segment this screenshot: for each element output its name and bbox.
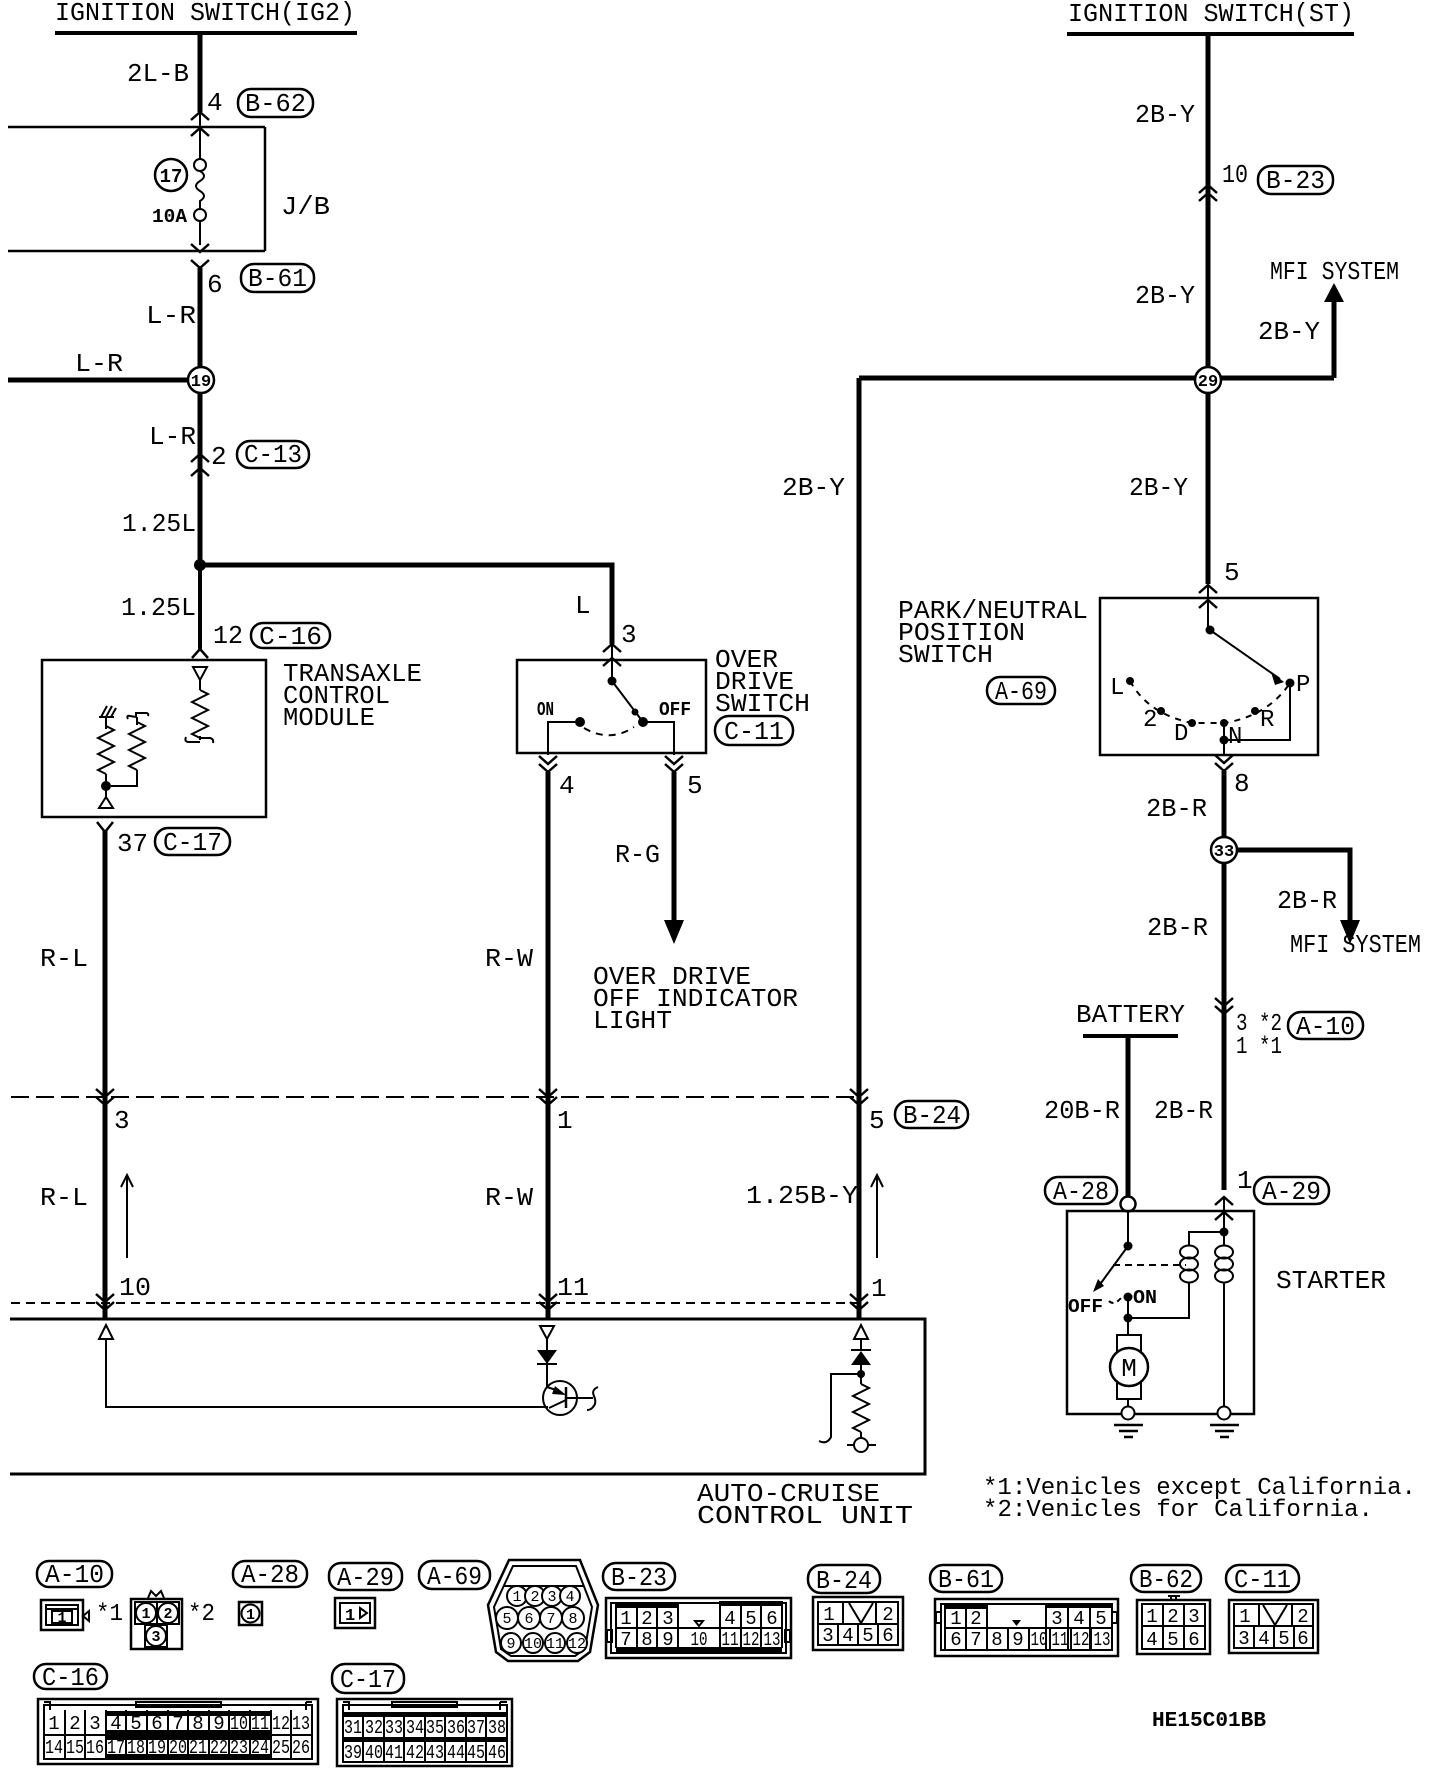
TCM internal triangle terminal (99, 790, 113, 808)
svg-text:D: D (1174, 721, 1188, 748)
svg-text:13: 13 (764, 1629, 781, 1651)
connector C-11 pin 5 (665, 756, 703, 801)
svg-text:2: 2 (1143, 707, 1157, 734)
svg-text:2: 2 (211, 442, 227, 472)
svg-text:A-28: A-28 (1053, 1177, 1109, 1207)
svg-text:10: 10 (1222, 160, 1248, 190)
resistor in auto-cruise (847, 1384, 876, 1452)
starter motor M (1110, 1335, 1148, 1406)
svg-text:5: 5 (1224, 558, 1240, 588)
svg-text:B-24: B-24 (903, 1101, 961, 1131)
svg-text:44: 44 (447, 1742, 465, 1764)
svg-text:A-10: A-10 (1296, 1012, 1355, 1042)
svg-text:A-69: A-69 (995, 677, 1047, 707)
svg-text:C-17: C-17 (163, 828, 222, 858)
svg-text:5: 5 (745, 1608, 756, 1630)
svg-text:33: 33 (385, 1717, 403, 1739)
junction 19 (188, 367, 214, 393)
junction 29 (1195, 367, 1221, 393)
connector A-10 detail (37, 1560, 123, 1630)
svg-text:3: 3 (1238, 1628, 1249, 1650)
svg-text:A-10: A-10 (45, 1560, 104, 1590)
svg-text:34: 34 (406, 1717, 424, 1739)
svg-text:4: 4 (1258, 1628, 1269, 1650)
transistor in auto-cruise unit (543, 1381, 598, 1415)
svg-text:SWITCH: SWITCH (715, 689, 810, 719)
svg-text:ON: ON (1133, 1287, 1157, 1309)
svg-text:SWITCH: SWITCH (898, 640, 993, 670)
svg-text:B-62: B-62 (245, 89, 306, 119)
svg-text:1: 1 (1146, 1606, 1157, 1628)
connector A-69 pin 8 (1215, 755, 1250, 799)
node IGNITION SWITCH(ST) (1067, 0, 1354, 34)
svg-text:2L-B: 2L-B (127, 59, 189, 89)
svg-text:12: 12 (568, 1636, 586, 1653)
svg-text:2: 2 (163, 1606, 172, 1623)
svg-text:20: 20 (169, 1737, 187, 1759)
svg-text:3: 3 (621, 620, 637, 650)
svg-text:*2:Venicles for California.: *2:Venicles for California. (983, 1497, 1373, 1524)
svg-text:C-16: C-16 (42, 1663, 99, 1693)
note vehicles (983, 1475, 1416, 1524)
connector C-16 pin 12 (192, 621, 330, 658)
svg-text:5: 5 (862, 1625, 873, 1647)
svg-text:2B-Y: 2B-Y (1129, 473, 1188, 503)
svg-text:6: 6 (1188, 1629, 1199, 1651)
svg-text:23: 23 (230, 1737, 248, 1759)
svg-text:1: 1 (557, 1106, 573, 1136)
svg-text:2: 2 (530, 1589, 539, 1606)
svg-text:2B-R: 2B-R (1154, 1096, 1213, 1126)
wire 2B-Y branch down from junction 29 (782, 378, 859, 1319)
svg-text:5: 5 (1167, 1629, 1178, 1651)
svg-text:35: 35 (426, 1717, 444, 1739)
svg-text:R-W: R-W (485, 1183, 533, 1213)
connector B-24 pin 3 (96, 1089, 130, 1136)
svg-text:10: 10 (1031, 1629, 1048, 1651)
svg-text:3: 3 (1188, 1606, 1199, 1628)
svg-text:45: 45 (467, 1742, 485, 1764)
svg-text:38: 38 (488, 1717, 506, 1739)
svg-text:6: 6 (207, 270, 223, 300)
ground left in starter (1114, 1407, 1143, 1438)
connector A-10 pins 3/1 (1215, 998, 1363, 1061)
svg-text:4: 4 (207, 88, 223, 118)
svg-text:1: 1 (871, 1274, 887, 1304)
node IGNITION SWITCH(IG2) (55, 0, 357, 33)
svg-text:J/B: J/B (281, 192, 330, 222)
wire direction arrow left (121, 1175, 133, 1258)
auto-cruise control unit connector pins 10 11 1 dashed line (11, 1273, 887, 1310)
svg-text:R-L: R-L (40, 944, 88, 974)
svg-text:A-28: A-28 (241, 1560, 299, 1590)
node branch dot in auto-cruise (857, 1370, 865, 1378)
node junction dot to overdrive switch branch (194, 559, 206, 571)
connector C-16 detail (34, 1663, 318, 1764)
svg-text:1: 1 (1239, 1606, 1250, 1628)
svg-text:*2: *2 (188, 1601, 215, 1628)
park/neutral contacts and dashed arc (1110, 672, 1310, 751)
park/neutral position switch box (898, 596, 1318, 755)
svg-text:C-11: C-11 (724, 717, 784, 747)
svg-text:37: 37 (117, 829, 148, 859)
svg-text:1.25L: 1.25L (121, 593, 196, 623)
svg-text:R-W: R-W (485, 944, 533, 974)
svg-text:IGNITION SWITCH(IG2): IGNITION SWITCH(IG2) (55, 0, 355, 28)
svg-text:21: 21 (189, 1737, 207, 1759)
svg-text:9: 9 (662, 1629, 673, 1651)
svg-text:7: 7 (546, 1611, 555, 1628)
wire R-L from TCM pin 37 (40, 830, 105, 1319)
svg-text:2B-R: 2B-R (1146, 794, 1207, 824)
svg-text:10A: 10A (152, 206, 188, 228)
svg-text:1.25L: 1.25L (122, 509, 196, 539)
connector C-11 pin 4 (539, 756, 575, 801)
svg-text:2: 2 (1297, 1606, 1308, 1628)
svg-text:33: 33 (1214, 843, 1234, 862)
svg-text:3: 3 (151, 1629, 160, 1646)
svg-text:L-R: L-R (146, 301, 196, 331)
svg-text:OFF: OFF (1068, 1296, 1103, 1318)
svg-text:B-62: B-62 (1139, 1565, 1193, 1595)
svg-text:3: 3 (547, 1589, 556, 1606)
svg-text:4: 4 (724, 1608, 735, 1630)
svg-text:5: 5 (502, 1611, 511, 1628)
svg-text:C-11: C-11 (1234, 1565, 1291, 1595)
connector C-11 detail (1226, 1565, 1318, 1653)
connector B-61 pin 6 (191, 244, 314, 300)
svg-text:7: 7 (970, 1629, 981, 1651)
svg-text:18: 18 (127, 1737, 145, 1759)
starter box (1067, 1211, 1386, 1414)
svg-text:11: 11 (1052, 1629, 1069, 1651)
svg-text:STARTER: STARTER (1276, 1266, 1386, 1296)
svg-text:4: 4 (842, 1625, 853, 1647)
auto-cruise control unit box (10, 1319, 925, 1531)
transaxle control module box (42, 659, 422, 817)
svg-text:13: 13 (1094, 1629, 1111, 1651)
svg-text:M: M (1121, 1354, 1137, 1384)
svg-text:2: 2 (970, 1608, 981, 1630)
connector B-24 detail (808, 1565, 903, 1650)
svg-text:6: 6 (524, 1611, 533, 1628)
wire L-R down from J/B (146, 268, 200, 650)
svg-text:1: 1 (57, 1610, 66, 1627)
svg-text:16: 16 (86, 1737, 104, 1759)
svg-text:L-R: L-R (149, 422, 196, 452)
connector B-62 detail (1131, 1565, 1210, 1654)
wire 2B-R below junction 33 (1147, 863, 1224, 1190)
svg-text:R: R (1260, 707, 1274, 734)
fuse 17 10A in J/B (152, 159, 206, 245)
svg-text:9: 9 (506, 1636, 515, 1653)
svg-text:1.25B-Y: 1.25B-Y (746, 1181, 858, 1211)
connector C-13 pin 2 (191, 440, 309, 476)
svg-text:N: N (1228, 724, 1242, 751)
svg-text:4: 4 (110, 1713, 121, 1735)
wire R-W from overdrive switch pin 4 (485, 772, 548, 1319)
connector A-29 detail (329, 1563, 402, 1628)
svg-text:MODULE: MODULE (283, 703, 375, 733)
svg-text:6: 6 (1297, 1628, 1308, 1650)
svg-text:40: 40 (365, 1742, 383, 1764)
svg-text:MFI SYSTEM: MFI SYSTEM (1290, 930, 1421, 960)
wire R-G from overdrive switch pin 5 to indicator light (615, 772, 684, 944)
svg-text:OFF: OFF (659, 699, 691, 721)
svg-text:36: 36 (447, 1717, 465, 1739)
wire branch with hook in auto-cruise (819, 1374, 861, 1442)
svg-text:13: 13 (292, 1713, 310, 1735)
junction 33 (1211, 837, 1237, 863)
node OVER DRIVE OFF INDICATOR LIGHT (593, 962, 798, 1036)
svg-text:7: 7 (620, 1629, 631, 1651)
svg-text:2: 2 (641, 1608, 652, 1630)
svg-text:19: 19 (148, 1737, 166, 1759)
svg-text:C-16: C-16 (259, 622, 322, 652)
svg-text:2B-R: 2B-R (1277, 886, 1337, 916)
svg-text:9: 9 (1012, 1629, 1023, 1651)
svg-text:8: 8 (991, 1629, 1002, 1651)
svg-text:37: 37 (467, 1717, 485, 1739)
svg-text:19: 19 (191, 373, 211, 392)
svg-text:6: 6 (766, 1608, 777, 1630)
wire direction arrow right (871, 1175, 883, 1258)
svg-text:17: 17 (160, 166, 183, 188)
svg-text:2B-Y: 2B-Y (1135, 281, 1195, 311)
svg-text:2: 2 (69, 1713, 80, 1735)
over drive switch box (517, 645, 810, 753)
svg-text:11: 11 (251, 1713, 269, 1735)
connector A-28 detail (233, 1560, 307, 1625)
overdrive switch contacts (537, 677, 691, 756)
svg-text:1 *1: 1 *1 (1236, 1034, 1282, 1061)
resistor in TCM middle with hook top (111, 713, 148, 786)
connector A-10 california detail (131, 1591, 215, 1649)
svg-text:A-69: A-69 (427, 1562, 482, 1592)
svg-text:4: 4 (559, 771, 575, 801)
svg-text:1: 1 (620, 1608, 631, 1630)
svg-text:2B-Y: 2B-Y (782, 473, 845, 503)
svg-text:11: 11 (557, 1273, 589, 1303)
svg-text:HE15C01BB: HE15C01BB (1152, 1710, 1266, 1733)
svg-text:B-24: B-24 (816, 1566, 872, 1596)
svg-text:29: 29 (1198, 373, 1218, 392)
wire 2B-Y from ignition switch ST (1135, 36, 1208, 368)
svg-text:26: 26 (292, 1737, 310, 1759)
wire 2B-R to junction 33 (1146, 771, 1224, 838)
connector C-17 detail (332, 1664, 512, 1766)
svg-text:C-13: C-13 (244, 440, 302, 470)
svg-text:P: P (1296, 672, 1310, 699)
connector B-24 pin 1 (539, 1089, 573, 1136)
wire branch to overdrive switch (200, 565, 612, 644)
connector B-24 pin 5 (850, 1089, 885, 1136)
svg-text:15: 15 (66, 1737, 84, 1759)
svg-text:LIGHT: LIGHT (593, 1006, 672, 1036)
starter switch (1068, 1211, 1186, 1335)
resistor in TCM left with hatch top (98, 706, 116, 783)
auto-cruise input terminal pin 10 (99, 1325, 548, 1407)
svg-text:4: 4 (565, 1589, 574, 1606)
svg-text:A-29: A-29 (337, 1563, 394, 1593)
wire 2L-B from ignition switch IG2 (127, 35, 200, 112)
wire P contact to N pin (1220, 683, 1291, 755)
connector B-61 detail (930, 1565, 1118, 1656)
svg-text:5: 5 (130, 1713, 141, 1735)
svg-text:6: 6 (882, 1625, 893, 1647)
svg-text:B-23: B-23 (611, 1563, 667, 1593)
connector B-23 detail (603, 1563, 791, 1658)
svg-text:2B-Y: 2B-Y (1135, 100, 1195, 130)
svg-text:10: 10 (230, 1713, 248, 1735)
connector B-23 pin 10 (1199, 160, 1333, 201)
node TCM internal junction dot (101, 781, 111, 791)
svg-text:5: 5 (687, 771, 703, 801)
node BATTERY (1044, 1000, 1185, 1197)
svg-text:2: 2 (882, 1604, 893, 1626)
svg-text:8: 8 (1234, 769, 1250, 799)
svg-text:10: 10 (524, 1636, 542, 1653)
svg-text:5: 5 (869, 1106, 885, 1136)
svg-text:BATTERY: BATTERY (1076, 1000, 1185, 1030)
connector B-24 dashed line (11, 1097, 968, 1131)
svg-text:ON: ON (537, 699, 554, 721)
node MFI SYSTEM top (1258, 257, 1399, 378)
svg-text:3: 3 (114, 1106, 130, 1136)
svg-text:5: 5 (1278, 1628, 1289, 1650)
diode at pin 1 of auto-cruise (851, 1325, 871, 1384)
svg-text:24: 24 (251, 1737, 269, 1759)
svg-text:2B-Y: 2B-Y (1258, 317, 1320, 347)
svg-text:41: 41 (385, 1742, 403, 1764)
svg-text:3: 3 (662, 1608, 673, 1630)
svg-text:7: 7 (172, 1713, 183, 1735)
wire L-R from left (8, 349, 190, 380)
svg-text:31: 31 (344, 1717, 362, 1739)
svg-text:12: 12 (213, 621, 243, 651)
svg-text:2: 2 (1167, 1606, 1178, 1628)
starter solenoid coils (1128, 1211, 1233, 1406)
connector A-69 detail (419, 1560, 598, 1661)
svg-text:1: 1 (512, 1589, 521, 1606)
svg-text:4: 4 (1073, 1608, 1084, 1630)
svg-text:*1: *1 (96, 1601, 123, 1628)
resistor in TCM right (pull-up) (185, 667, 213, 743)
svg-text:14: 14 (45, 1737, 63, 1759)
svg-text:1: 1 (141, 1606, 150, 1623)
svg-text:8: 8 (192, 1713, 203, 1735)
svg-text:42: 42 (406, 1742, 424, 1764)
svg-text:1: 1 (950, 1608, 961, 1630)
svg-text:10: 10 (691, 1629, 708, 1651)
connector C-11 pin 3 (603, 620, 637, 681)
svg-text:6: 6 (950, 1629, 961, 1651)
svg-text:L: L (575, 591, 591, 621)
diode at pin 11 (537, 1326, 557, 1387)
connector A-69 pin 5 (1199, 558, 1240, 630)
svg-text:46: 46 (488, 1742, 506, 1764)
connector A-29 pin 1 (1215, 1166, 1329, 1232)
svg-text:2B-R: 2B-R (1147, 913, 1208, 943)
svg-text:C-17: C-17 (340, 1665, 396, 1695)
svg-text:1: 1 (48, 1713, 59, 1735)
wire 2B-Y to park/neutral switch (1129, 393, 1208, 584)
connector C-17 pin 37 (97, 822, 230, 859)
svg-text:12: 12 (743, 1629, 760, 1651)
svg-text:22: 22 (210, 1737, 228, 1759)
svg-text:17: 17 (107, 1737, 125, 1759)
park/neutral switch rotor (1206, 626, 1285, 686)
svg-text:MFI SYSTEM: MFI SYSTEM (1270, 257, 1399, 287)
svg-text:39: 39 (344, 1742, 362, 1764)
svg-text:3: 3 (1051, 1608, 1062, 1630)
ground right in starter (1210, 1407, 1239, 1438)
svg-text:B-61: B-61 (248, 264, 307, 294)
svg-text:43: 43 (426, 1742, 444, 1764)
svg-text:8: 8 (641, 1629, 652, 1651)
svg-text:25: 25 (272, 1737, 290, 1759)
junction block J/B (8, 127, 330, 251)
svg-text:8: 8 (568, 1611, 577, 1628)
svg-text:CONTROL UNIT: CONTROL UNIT (697, 1501, 913, 1531)
svg-text:1: 1 (246, 1607, 255, 1624)
svg-text:11: 11 (546, 1636, 564, 1653)
svg-text:L-R: L-R (75, 349, 123, 379)
svg-text:L: L (1110, 675, 1124, 702)
svg-text:B-61: B-61 (938, 1565, 994, 1595)
svg-text:10: 10 (119, 1273, 151, 1303)
svg-text:20B-R: 20B-R (1044, 1096, 1120, 1126)
svg-text:11: 11 (722, 1629, 739, 1651)
svg-text:12: 12 (272, 1713, 290, 1735)
svg-text:12: 12 (1073, 1629, 1090, 1651)
svg-text:IGNITION SWITCH(ST): IGNITION SWITCH(ST) (1068, 0, 1354, 29)
connector A-28 terminal (1045, 1177, 1136, 1212)
svg-text:B-23: B-23 (1266, 166, 1325, 196)
svg-text:R-G: R-G (615, 840, 660, 870)
svg-text:32: 32 (365, 1717, 383, 1739)
svg-text:9: 9 (213, 1713, 224, 1735)
svg-text:1: 1 (1237, 1166, 1253, 1196)
wire branch 2B-R to MFI SYSTEM (1236, 850, 1421, 960)
svg-text:A-29: A-29 (1262, 1177, 1321, 1207)
svg-text:1: 1 (823, 1604, 834, 1626)
svg-text:5: 5 (1095, 1608, 1106, 1630)
wire bus at junction 29 (859, 376, 1334, 381)
svg-text:4: 4 (1146, 1629, 1157, 1651)
svg-text:1: 1 (345, 1607, 355, 1626)
connector B-62 pin 4 (191, 88, 313, 160)
svg-text:3: 3 (89, 1713, 100, 1735)
svg-text:6: 6 (151, 1713, 162, 1735)
svg-text:3: 3 (822, 1625, 833, 1647)
svg-text:R-L: R-L (40, 1183, 88, 1213)
